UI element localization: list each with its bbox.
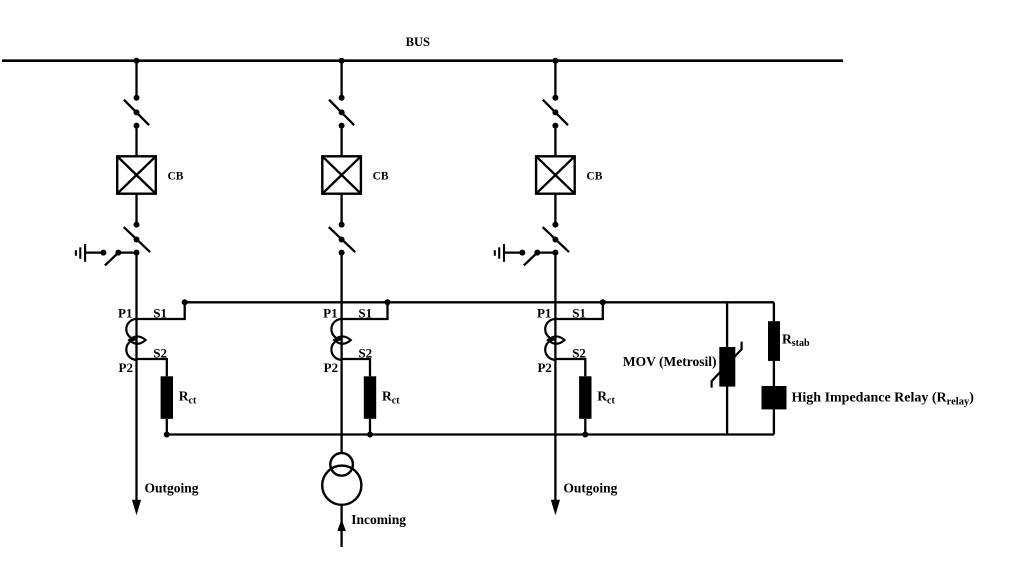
switch SW1 (feeder isolator) (124, 222, 150, 256)
resistor Rct (CT1 secondary burden) (161, 376, 173, 419)
resistor Rct (CT3 secondary burden) (579, 376, 591, 419)
resistor Rstab (stabilising resistor) (768, 321, 780, 361)
svg-text:S1: S1 (153, 306, 167, 321)
svg-text:P1: P1 (118, 306, 132, 321)
wire MOV branch (726, 302, 728, 434)
svg-text:Outgoing: Outgoing (563, 481, 617, 496)
svg-text:CB: CB (586, 170, 602, 182)
node Rct3 junction on bottom pilot wire (582, 432, 588, 438)
svg-text:CB: CB (168, 170, 184, 182)
wire CT2 terminal S2 to resistor Rct (342, 359, 370, 376)
node S1 junction feeder 1 (182, 299, 188, 305)
svg-text:P1: P1 (323, 306, 337, 321)
switch SW3 (feeder isolator) (543, 222, 569, 256)
current transformer CT1 primary lens (129, 336, 146, 343)
node S1 junction feeder 3 (600, 299, 606, 305)
current transformer CT2 primary lens (334, 336, 351, 343)
wire CT1 terminal S1 to top pilot wire (137, 302, 185, 319)
svg-text:Rstab: Rstab (782, 332, 810, 350)
bus B1 (main busbar) (2, 59, 843, 62)
arrow outgoing feeder 3 (551, 500, 560, 516)
wire DS2 to CB2 (340, 126, 342, 157)
earth switch ES1 (open blade) (100, 250, 121, 266)
varistor RV1 symbol stroke (712, 342, 742, 388)
current transformer CT3 primary lens (548, 336, 565, 343)
svg-text:Incoming: Incoming (351, 512, 406, 527)
wire CT3 terminal S2 to resistor Rct (555, 359, 585, 376)
node bus junction feeder 3 (552, 58, 558, 64)
earth switch ES3 (open blade) (519, 250, 540, 266)
arrow outgoing feeder 1 (132, 500, 141, 516)
svg-text:BUS: BUS (406, 35, 430, 49)
current transformer CT2 (secondary winding arcs) (331, 319, 341, 360)
wire top pilot bus (S1 paralleling wire) (185, 301, 774, 303)
svg-text:Outgoing: Outgoing (145, 481, 199, 496)
wire bus to disconnector DS1 (135, 61, 137, 98)
node bus junction feeder 2 (339, 58, 345, 64)
svg-text:MOV (Metrosil): MOV (Metrosil) (623, 354, 717, 369)
wire ground to earth-switch ES3 (504, 251, 522, 253)
wire CT1 terminal S2 to resistor Rct (137, 359, 167, 376)
wire ground to earth-switch ES1 (85, 251, 103, 253)
wire DS1 to CB1 (135, 126, 137, 157)
wire Rct3 to bottom pilot wire (584, 419, 586, 435)
node S1 junction feeder 2 (385, 299, 391, 305)
wire feeder 1 main conductor (135, 253, 137, 502)
wire feeder 3 main conductor (554, 253, 556, 502)
wire feeder 2 main conductor (340, 253, 342, 454)
current transformer CT3 (secondary winding arcs) (545, 319, 555, 360)
svg-text:S2: S2 (153, 345, 167, 360)
circuit breaker CB2 (322, 156, 361, 193)
disconnector DS3 (bus isolator) (543, 95, 568, 129)
svg-text:P2: P2 (537, 360, 551, 375)
wire CB1 to switch SW1 (135, 194, 137, 225)
disconnector DS1 (bus isolator) (124, 95, 149, 129)
svg-text:High Impedance Relay (Rrelay): High Impedance Relay (Rrelay) (792, 391, 975, 408)
svg-text:P1: P1 (537, 306, 551, 321)
relay K1 high impedance relay body (762, 386, 787, 409)
svg-text:CB: CB (373, 170, 389, 182)
wire top pilot to Rstab (773, 302, 775, 321)
switch SW2 (feeder isolator) (329, 222, 355, 256)
circuit breaker CB1 (117, 156, 156, 193)
wire DS3 to CB3 (554, 126, 556, 157)
wire CB3 to switch SW3 (554, 194, 556, 225)
wire bus to disconnector DS2 (340, 61, 342, 98)
wire Rct2 to bottom pilot wire (369, 419, 371, 435)
wire incoming arrow shaft (340, 531, 342, 547)
wire Rct1 to bottom pilot wire (166, 419, 168, 435)
svg-text:S1: S1 (572, 306, 586, 321)
wire bottom pilot bus (S2 paralleling wire) (167, 433, 774, 435)
node Rct1 junction on bottom pilot wire (164, 432, 170, 438)
svg-text:S2: S2 (572, 345, 586, 360)
svg-text:S2: S2 (358, 345, 372, 360)
node Rct2 junction on bottom pilot wire (367, 432, 373, 438)
varistor RV1 MOV (Metrosil) body (719, 347, 735, 387)
svg-text:P2: P2 (324, 360, 338, 375)
ground (earth electrode feeder 1) (76, 244, 85, 262)
wire relay to bottom pilot (773, 409, 775, 434)
wire transformer to incoming arrow (340, 505, 342, 524)
wire CT2 terminal S1 to top pilot wire (342, 302, 388, 319)
svg-text:Rct: Rct (179, 389, 197, 407)
node bus junction feeder 1 (134, 58, 140, 64)
arrow incoming feeder 2 (337, 519, 346, 531)
wire Rstab to relay (773, 361, 775, 386)
wire bus to disconnector DS3 (554, 61, 556, 98)
svg-text:Rct: Rct (382, 389, 400, 407)
wire earth switch ES1 to feeder 1 (118, 251, 136, 253)
svg-text:S1: S1 (358, 306, 372, 321)
disconnector DS2 (bus isolator) (329, 95, 354, 129)
resistor Rct (CT2 secondary burden) (364, 376, 376, 419)
wire CB2 to switch SW2 (340, 194, 342, 225)
svg-text:Rct: Rct (597, 389, 615, 407)
current transformer CT1 (secondary winding arcs) (126, 319, 136, 360)
wire earth switch ES3 to feeder 3 (537, 251, 555, 253)
circuit breaker CB3 (536, 156, 575, 193)
transformer T1 (incoming source) (322, 453, 361, 505)
ground (earth electrode feeder 3) (495, 244, 504, 262)
wire CT3 terminal S1 to top pilot wire (555, 302, 602, 319)
svg-text:P2: P2 (119, 360, 133, 375)
